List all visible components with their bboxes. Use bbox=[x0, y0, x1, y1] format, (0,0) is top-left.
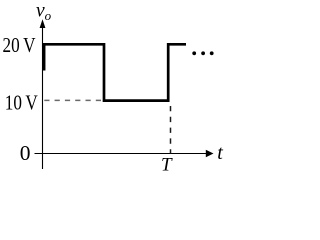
svg-text:t: t bbox=[217, 142, 223, 164]
dashed gray line at 10V level bbox=[44, 99, 101, 101]
svg-text:0: 0 bbox=[20, 141, 31, 165]
continuation dot 1 bbox=[192, 51, 196, 55]
continuation dot 2 bbox=[201, 51, 205, 55]
svg-text:20 V: 20 V bbox=[3, 33, 36, 57]
waveform vo square wave bbox=[44, 44, 186, 100]
svg-text:T: T bbox=[161, 154, 173, 175]
y-axis bbox=[42, 24, 44, 169]
y-axis arrowhead bbox=[40, 19, 46, 28]
svg-text:10 V: 10 V bbox=[5, 91, 38, 115]
x-axis arrowhead bbox=[206, 150, 214, 158]
dashed vertical line at t=T bbox=[170, 106, 172, 154]
continuation dot 3 bbox=[210, 51, 214, 55]
x-axis bbox=[35, 153, 207, 155]
